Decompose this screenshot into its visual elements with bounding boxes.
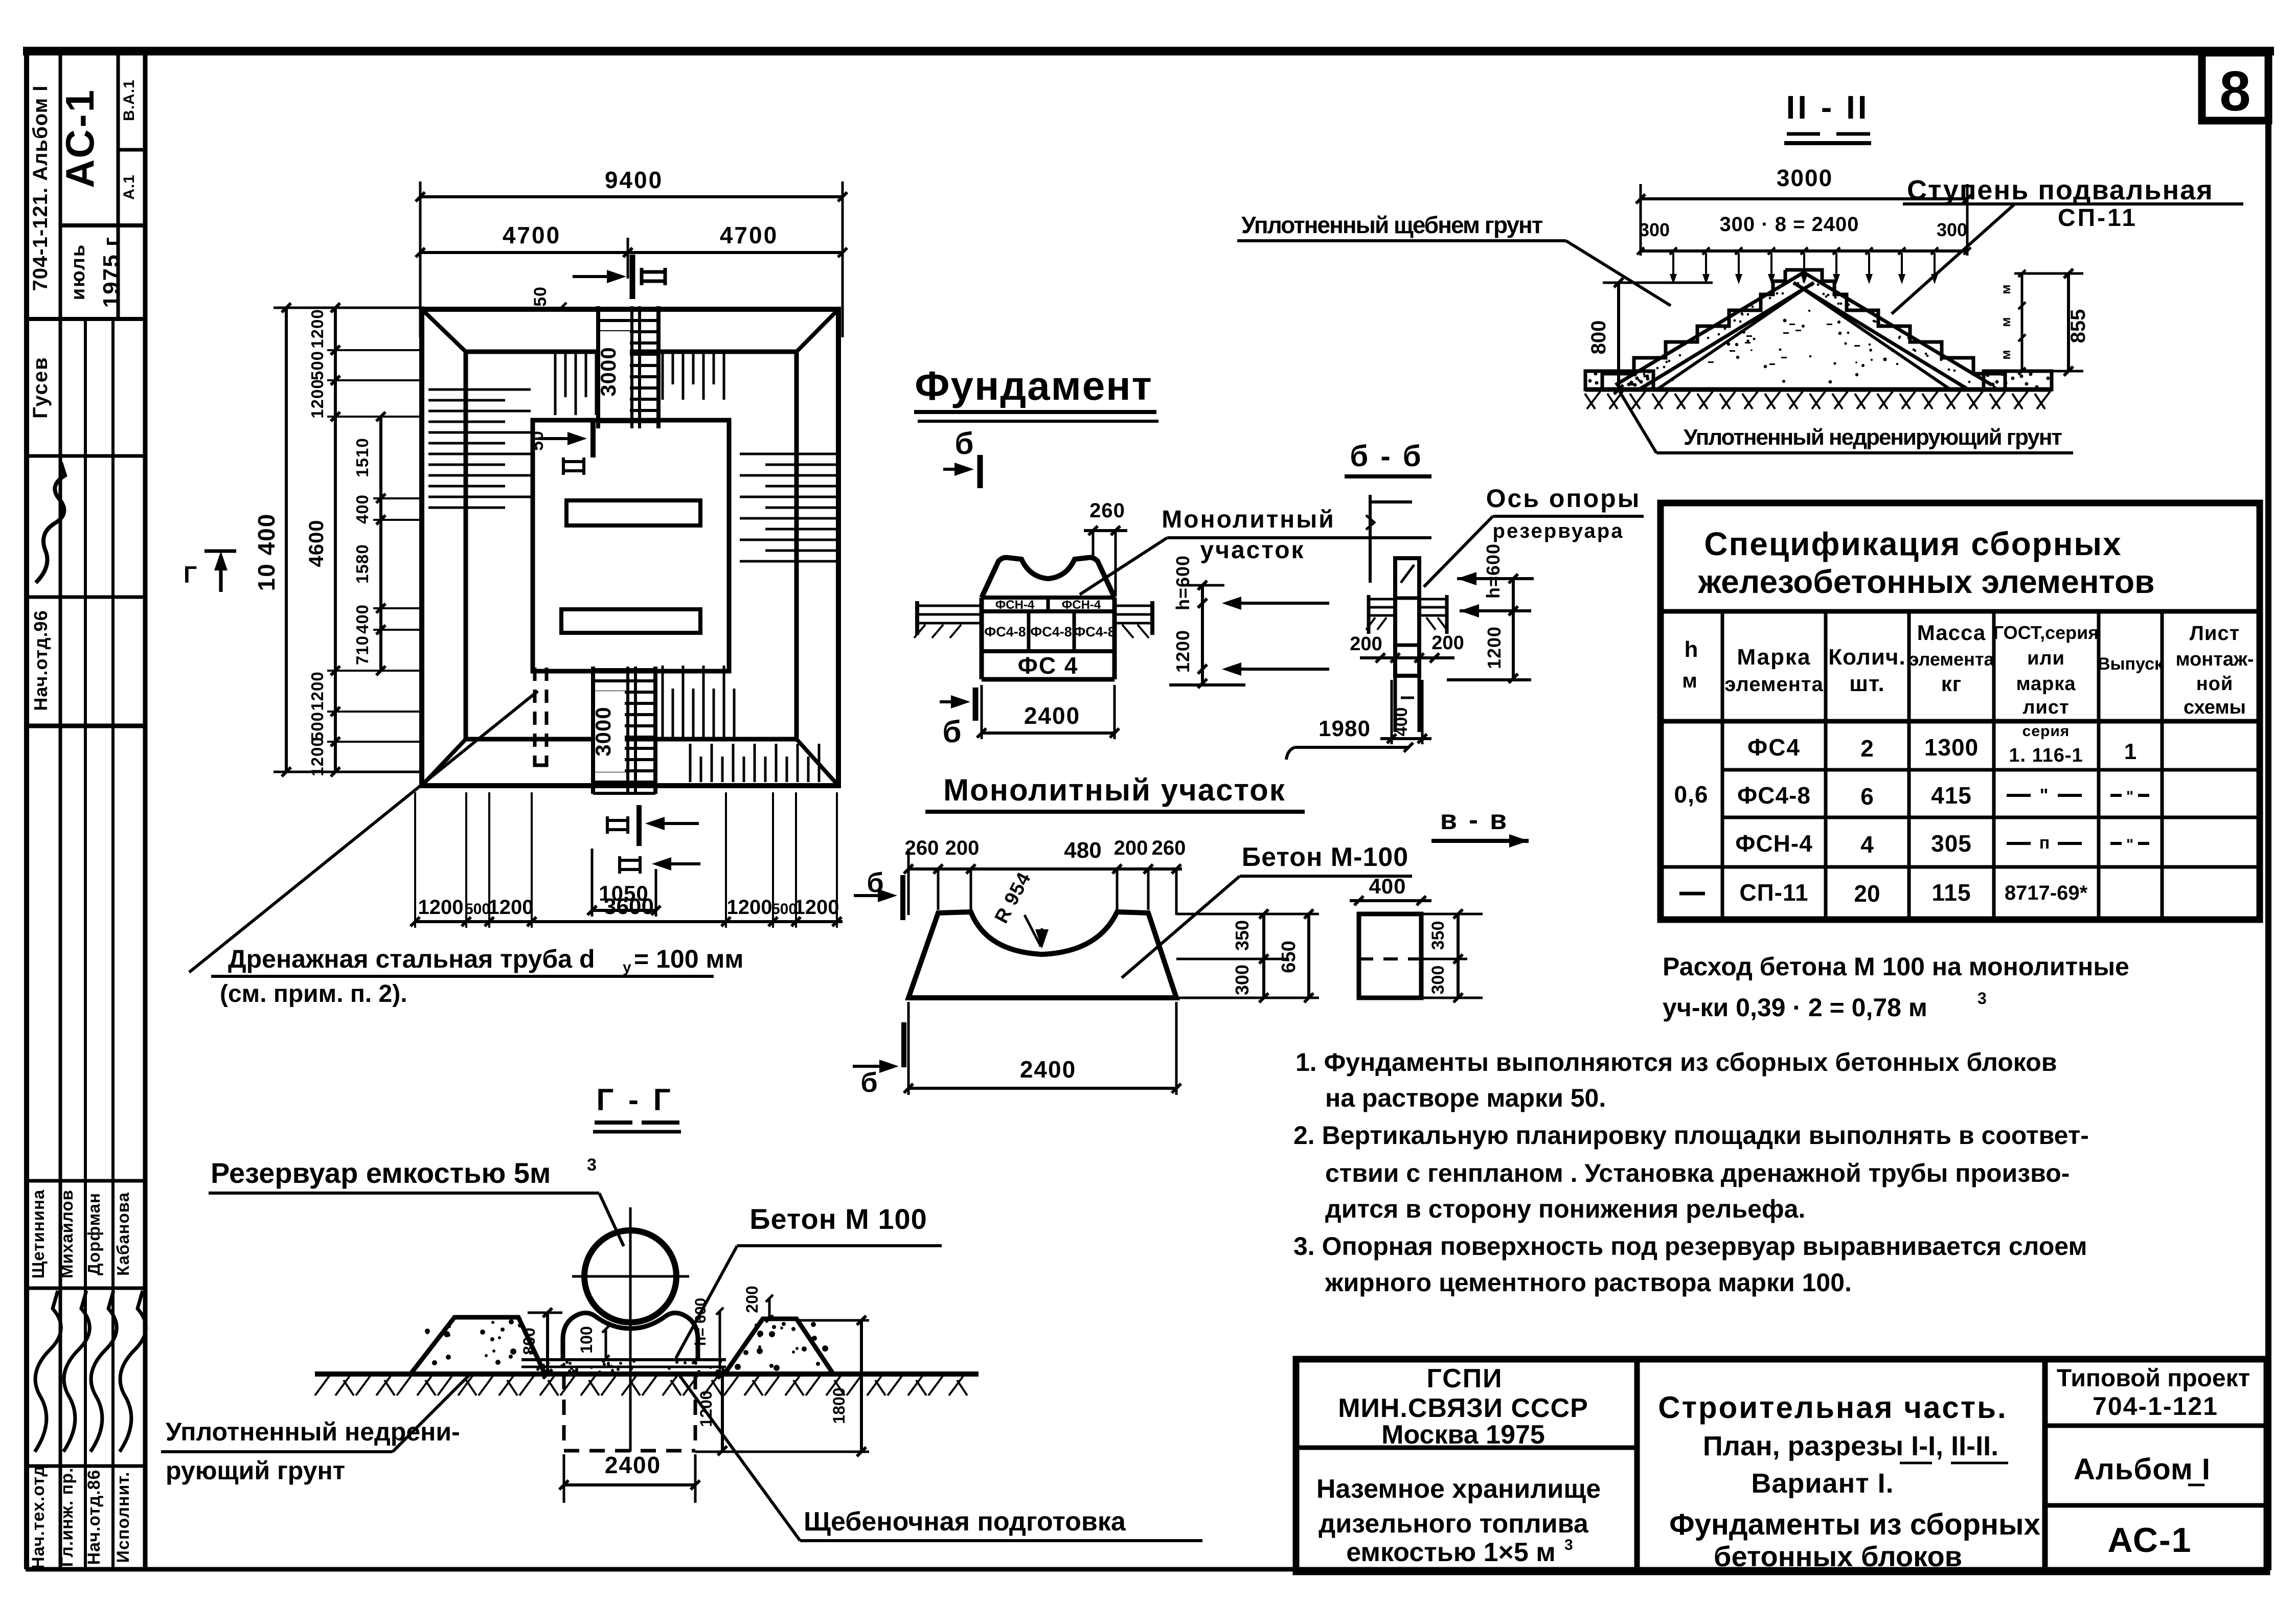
svg-text:1. 116-1: 1. 116-1 xyxy=(2009,745,2083,766)
svg-text:1: 1 xyxy=(2124,739,2136,764)
svg-text:Нач.отд.96: Нач.отд.96 xyxy=(30,610,51,711)
svg-text:400: 400 xyxy=(1369,874,1406,898)
svg-text:1200: 1200 xyxy=(1172,630,1193,673)
spec table header bottom xyxy=(1661,719,2260,724)
svg-text:ФС4-8: ФС4-8 xyxy=(1030,624,1072,639)
svg-text:м: м xyxy=(1998,350,2013,359)
plan: lower foundation slot xyxy=(561,609,700,633)
svg-text:Выпуск: Выпуск xyxy=(2098,654,2164,674)
b-b: support column rectangle xyxy=(1395,558,1419,676)
svg-text:дизельного топлива: дизельного топлива xyxy=(1319,1509,1589,1539)
svg-text:ФСН-4: ФСН-4 xyxy=(1735,830,1813,857)
title block right dividers xyxy=(2045,1424,2267,1428)
svg-text:ФС4-8: ФС4-8 xyxy=(1074,624,1116,639)
base strip left end xyxy=(1585,371,1653,390)
spec table header divider xyxy=(1661,609,2260,614)
stamp signature squiggle col4 xyxy=(120,1291,146,1452)
svg-text:855: 855 xyxy=(2067,309,2089,344)
svg-text:3: 3 xyxy=(1977,989,1987,1008)
dim 800 left II-II xyxy=(1603,282,1713,284)
plan: top stair label 3000 xyxy=(600,331,630,412)
plan: central foundation rectangle xyxy=(533,420,729,671)
gravel + concrete base layers xyxy=(521,1358,726,1361)
fundament level reference arrows xyxy=(1222,597,1241,610)
stamp strip vertical line x221 lower section xyxy=(111,319,115,1569)
svg-text:м: м xyxy=(1998,284,2013,294)
svg-text:115: 115 xyxy=(1931,879,1971,906)
dimension 9400 top xyxy=(420,195,843,198)
svg-text:б: б xyxy=(942,715,961,749)
plan: upper foundation slot xyxy=(566,500,700,525)
stamp signature squiggle col3 xyxy=(90,1291,117,1452)
plan: hatching bottom band (vertical strokes) xyxy=(663,666,819,782)
svg-text:Кабанова: Кабанова xyxy=(113,1192,132,1276)
svg-text:2400: 2400 xyxy=(1020,1056,1076,1083)
mound inner fill triangle xyxy=(1658,289,1949,388)
svg-text:Спецификация сборных: Спецификация сборных xyxy=(1704,525,2122,562)
mound stepped outline right xyxy=(1785,270,2005,390)
base line II-II xyxy=(1585,387,2052,392)
svg-text:h=600: h=600 xyxy=(1172,555,1193,610)
stamp strip divider y293 xyxy=(118,148,145,152)
svg-text:8717-69*: 8717-69* xyxy=(2005,882,2088,904)
svg-text:в - в: в - в xyxy=(1440,805,1509,835)
dim 855 overall right II-II xyxy=(2067,273,2070,371)
svg-text:300: 300 xyxy=(1428,966,1448,995)
svg-text:400: 400 xyxy=(353,604,372,634)
svg-text:260: 260 xyxy=(1089,499,1125,522)
plan: drain pipe dashed line left xyxy=(533,668,537,765)
svg-text:50: 50 xyxy=(531,286,550,307)
svg-text:План, разрезы I-I, II-II.: План, разрезы I-I, II-II. xyxy=(1703,1431,1998,1461)
stamp strip divider y2310 xyxy=(27,1179,145,1183)
svg-text:Дренажная стальная труба d: Дренажная стальная труба d xyxy=(228,945,595,973)
svg-text:Вариант I.: Вариант I. xyxy=(1751,1468,1894,1499)
stamp strip divider y892 xyxy=(27,454,145,458)
svg-text:3000: 3000 xyxy=(596,347,620,396)
svg-text:1510: 1510 xyxy=(353,438,372,477)
v-v right dims 350/300 xyxy=(1421,913,1483,916)
svg-text:Уплотненный недрени-: Уплотненный недрени- xyxy=(166,1417,460,1446)
svg-text:1200: 1200 xyxy=(1484,626,1505,669)
mound fill speckles xyxy=(1671,310,1898,384)
svg-text:кг: кг xyxy=(1941,672,1962,696)
b-b dimension 200+200 xyxy=(1360,656,1454,659)
svg-text:200: 200 xyxy=(743,1286,761,1313)
svg-text:260: 260 xyxy=(1152,837,1186,859)
svg-text:1200: 1200 xyxy=(794,896,839,919)
svg-text:участок: участок xyxy=(1200,537,1305,564)
svg-text:260: 260 xyxy=(905,837,939,859)
svg-text:3000: 3000 xyxy=(1777,165,1833,191)
svg-text:6: 6 xyxy=(1860,783,1874,810)
svg-text:3. Опорная поверхность под: 3. Опорная поверхность под резервуар выр… xyxy=(1293,1232,2087,1261)
svg-text:В.А.1: В.А.1 xyxy=(121,79,138,121)
dim 800 left of pedestal xyxy=(528,1312,562,1314)
svg-text:8: 8 xyxy=(2219,60,2250,123)
svg-text:ФС4-8: ФС4-8 xyxy=(1737,782,1811,809)
svg-text:Монолитный: Монолитный xyxy=(1162,506,1335,533)
sheet top border xyxy=(23,47,2274,56)
left dimension chain 1200/500/1200/4600/1200/500/1200 xyxy=(334,308,337,772)
svg-text:Щетинина: Щетинина xyxy=(29,1189,48,1279)
plan: hatching right band (horizontal strokes) xyxy=(740,454,837,561)
v-v block dashed mid line xyxy=(1359,957,1421,960)
fundament block: FSN-4 row xyxy=(982,596,1115,600)
svg-text:элемента: элемента xyxy=(1909,649,1995,670)
svg-text:20: 20 xyxy=(1854,880,1880,907)
svg-text:лист: лист xyxy=(2022,697,2069,718)
svg-text:Ось опоры: Ось опоры xyxy=(1486,484,1641,513)
svg-text:элемента: элемента xyxy=(1724,673,1824,696)
svg-text:1580: 1580 xyxy=(353,544,372,583)
svg-text:1300: 1300 xyxy=(1924,734,1979,761)
right small step dims II-II xyxy=(2014,272,2083,275)
pedestal under tank xyxy=(563,1313,698,1359)
tank circle xyxy=(584,1230,676,1322)
stamp strip divider y441 xyxy=(60,223,145,227)
sheet bottom border xyxy=(26,1567,2268,1572)
fundament right dims h=600 and 1200 xyxy=(1201,585,1204,683)
svg-text:ФС4: ФС4 xyxy=(1747,734,1801,761)
dimension 10400 overall left xyxy=(285,308,288,772)
svg-text:ГОСТ,серия: ГОСТ,серия xyxy=(1993,622,2099,643)
svg-text:СП-11: СП-11 xyxy=(1739,879,1808,906)
svg-text:Лист: Лист xyxy=(2190,622,2240,645)
dimension 3000 (II-II) xyxy=(1641,197,1967,200)
svg-text:Гл.инж. пр.: Гл.инж. пр. xyxy=(57,1468,77,1567)
b-b level reference arrows xyxy=(1457,572,1476,585)
plan: bottom stair label 3000 xyxy=(595,691,625,772)
svg-text:ГСПИ: ГСПИ xyxy=(1426,1364,1503,1393)
plan: chamfer diagonal top-right xyxy=(797,309,838,352)
svg-text:400: 400 xyxy=(1392,707,1411,737)
svg-text:Уплотненный недренирующий гр: Уплотненный недренирующий грунт xyxy=(1684,425,2062,450)
left berm xyxy=(411,1317,545,1374)
svg-text:на растворе марки 50.: на растворе марки 50. xyxy=(1325,1084,1606,1112)
ground hatch below base II-II xyxy=(1585,392,2050,409)
svg-text:2400: 2400 xyxy=(605,1452,661,1478)
fundament: ground lines right xyxy=(1115,605,1152,607)
svg-text:400: 400 xyxy=(353,494,372,524)
v-v block rectangle xyxy=(1359,914,1421,998)
saddle bottom dimension 2400 xyxy=(908,1087,1176,1090)
plan: hatching left band (horizontal strokes) xyxy=(428,390,531,508)
svg-text:шт.: шт. xyxy=(1849,671,1885,696)
svg-text:м: м xyxy=(1998,317,2013,327)
svg-text:h= 600: h= 600 xyxy=(692,1298,709,1346)
right berm xyxy=(724,1319,833,1374)
spec table row line 2 xyxy=(1722,816,2260,819)
svg-text:ФСН-4: ФСН-4 xyxy=(995,598,1035,612)
svg-text:Уплотненный щебнем грунт: Уплотненный щебнем грунт xyxy=(1241,212,1543,238)
b-b right dims h=600 and 1200 xyxy=(1512,579,1515,678)
stamp signature squiggle 1 xyxy=(36,463,65,583)
svg-text:Нач.отд.86: Нач.отд.86 xyxy=(84,1470,104,1565)
svg-text:(см. прим. п. 2).: (см. прим. п. 2). xyxy=(220,980,407,1008)
svg-text:3: 3 xyxy=(587,1155,597,1175)
sheet left border xyxy=(24,51,29,1569)
stamp strip vertical line x231 top section xyxy=(117,51,120,319)
title block divider 2 xyxy=(2042,1359,2048,1572)
svg-text:650: 650 xyxy=(1278,941,1300,973)
svg-text:4: 4 xyxy=(1860,831,1874,858)
spec table column lines xyxy=(1721,611,1724,920)
svg-text:800: 800 xyxy=(520,1328,538,1355)
b-b: ground lines left xyxy=(1369,598,1395,601)
stamp strip vertical line x284 (right edge of strip) xyxy=(143,51,148,1569)
svg-text:монтаж-: монтаж- xyxy=(2175,649,2254,670)
mound stepped outline left xyxy=(1602,270,1785,390)
svg-text:Бетон М-100: Бетон М-100 xyxy=(1242,842,1408,872)
plan: chamfer diagonal bottom-left xyxy=(422,739,466,786)
svg-text:б: б xyxy=(954,426,973,461)
svg-text:h: h xyxy=(1685,637,1698,662)
svg-text:емкостью 1×5 м: емкостью 1×5 м xyxy=(1346,1538,1555,1567)
svg-text:50: 50 xyxy=(528,430,547,451)
dimension 4700+4700 xyxy=(420,251,843,254)
svg-text:704-1-121: 704-1-121 xyxy=(2093,1392,2218,1421)
svg-text:1200: 1200 xyxy=(727,896,772,919)
mound inclined band right xyxy=(1804,272,1992,385)
dimension 260 on fundament top xyxy=(1084,529,1127,532)
svg-text:200: 200 xyxy=(945,837,980,859)
svg-text:ФС 4: ФС 4 xyxy=(1018,652,1079,679)
plan: hatching top band (vertical strokes) xyxy=(555,354,724,415)
svg-text:200: 200 xyxy=(1114,837,1148,859)
stamp strip vertical line x167 lower section xyxy=(84,319,87,1569)
svg-text:бетонных блоков: бетонных блоков xyxy=(1714,1540,1962,1572)
svg-text:А.1: А.1 xyxy=(121,174,138,200)
svg-text:Колич.: Колич. xyxy=(1828,645,1905,670)
berm speckles xyxy=(425,1319,828,1371)
svg-text:ствии с генпланом . Установ: ствии с генпланом . Установка дренажной … xyxy=(1325,1159,2070,1187)
svg-text:200: 200 xyxy=(1431,632,1464,654)
svg-text:= 100 мм: = 100 мм xyxy=(634,945,743,973)
saddle block outline xyxy=(908,912,1176,998)
sheet right border xyxy=(2265,51,2271,1570)
svg-text:б - б: б - б xyxy=(1350,440,1423,473)
svg-text:2. Вертикальную планировку п: 2. Вертикальную планировку площадки выпо… xyxy=(1293,1121,2089,1150)
b-b dimension 400 xyxy=(1380,737,1431,740)
svg-text:710: 710 xyxy=(353,635,372,665)
plan: outer rectangle of mound xyxy=(422,309,838,786)
svg-text:200: 200 xyxy=(1350,633,1382,655)
svg-text:3000: 3000 xyxy=(591,706,615,756)
svg-text:железобетонных элементов: железобетонных элементов xyxy=(1698,563,2155,600)
svg-text:АС-1: АС-1 xyxy=(57,88,102,188)
svg-text:СП-11: СП-11 xyxy=(2058,204,2138,232)
svg-text:500: 500 xyxy=(308,351,327,380)
svg-text:у: у xyxy=(623,959,631,976)
svg-text:305: 305 xyxy=(1931,830,1972,857)
svg-text:Монолитный участок: Монолитный участок xyxy=(943,773,1286,807)
svg-text:п: п xyxy=(2039,833,2050,853)
dimension 300x8=2400 chain xyxy=(1641,249,1967,253)
svg-text:9400: 9400 xyxy=(605,167,663,193)
svg-text:0,6: 0,6 xyxy=(1674,781,1709,808)
svg-text:415: 415 xyxy=(1931,782,1972,809)
stamp strip divider y1168 xyxy=(27,596,145,599)
svg-text:м: м xyxy=(1682,670,1697,692)
stamp strip divider y2520 xyxy=(27,1287,145,1290)
title block divider 1 xyxy=(1634,1359,1640,1572)
svg-text:Ступень подвальная: Ступень подвальная xyxy=(1907,175,2214,205)
svg-text:Фундаменты из сборных: Фундаменты из сборных xyxy=(1669,1508,2040,1541)
svg-text:жирного цементного раствора: жирного цементного раствора марки 100. xyxy=(1325,1268,1852,1297)
spec table outer border xyxy=(1661,503,2260,920)
svg-text:1200: 1200 xyxy=(488,896,534,919)
svg-text:1050: 1050 xyxy=(599,881,648,905)
plan: bottom stair rungs xyxy=(593,668,655,671)
v-v dimension 400 xyxy=(1350,899,1431,902)
b-b: ground lines right xyxy=(1419,598,1447,601)
svg-text:ной: ной xyxy=(2196,673,2234,695)
svg-text:Москва 1975: Москва 1975 xyxy=(1381,1420,1545,1450)
svg-text:Г - Г: Г - Г xyxy=(596,1083,673,1117)
svg-text:II - II: II - II xyxy=(1786,89,1870,126)
dim 2400 under G-G xyxy=(564,1483,695,1486)
svg-text:или: или xyxy=(2027,648,2065,669)
svg-text:Бетон М 100: Бетон М 100 xyxy=(749,1203,927,1235)
svg-text:уч-ки 0,39 · 2 = 0,78 м: уч-ки 0,39 · 2 = 0,78 м xyxy=(1663,993,1927,1022)
svg-text:рующий грунт: рующий грунт xyxy=(166,1456,345,1485)
svg-text:Дорфман: Дорфман xyxy=(84,1193,103,1275)
svg-text:Масса: Масса xyxy=(1917,621,1986,645)
section mark II at inner rect top xyxy=(567,432,587,445)
fundament: ground lines left xyxy=(917,605,982,607)
mound inclined band left (step stringer) xyxy=(1616,272,1804,385)
svg-text:300: 300 xyxy=(1639,219,1670,240)
svg-text:Г: Г xyxy=(184,561,197,588)
svg-text:Расход бетона М 100 на монол: Расход бетона М 100 на монолитные xyxy=(1663,952,2129,981)
svg-text:h=600: h=600 xyxy=(1483,543,1504,599)
svg-text:300: 300 xyxy=(1937,219,1967,240)
svg-text:Гусев: Гусев xyxy=(29,356,52,418)
svg-text:704-1-121. Альбом I: 704-1-121. Альбом I xyxy=(29,85,52,291)
svg-text:серия: серия xyxy=(2022,723,2070,740)
section mark G left of plan xyxy=(204,550,236,553)
svg-text:1200: 1200 xyxy=(308,379,327,418)
title block outer xyxy=(1296,1359,2267,1572)
svg-text:ФС4-8: ФС4-8 xyxy=(984,624,1026,639)
plan: chamfer diagonal top-left xyxy=(422,309,466,352)
svg-text:500: 500 xyxy=(465,901,490,918)
svg-text:МИН.СВЯЗИ СССР: МИН.СВЯЗИ СССР xyxy=(1338,1393,1588,1423)
svg-text:": " xyxy=(2039,785,2048,806)
svg-text:Марка: Марка xyxy=(1737,645,1811,670)
svg-text:Резервуар емкостью 5м: Резервуар емкостью 5м xyxy=(211,1157,551,1189)
fundament block: FS4 row xyxy=(982,677,1115,682)
svg-text:июль: июль xyxy=(67,244,89,300)
mound band speckles xyxy=(1638,280,1971,383)
svg-text:100: 100 xyxy=(577,1326,596,1353)
dimension 2400 under fundament xyxy=(982,731,1115,735)
base strip right end xyxy=(1984,371,2052,390)
stamp strip vertical line x118 xyxy=(59,51,62,1569)
svg-text:4700: 4700 xyxy=(503,222,561,248)
svg-text:1975 г: 1975 г xyxy=(99,236,124,308)
svg-text:резервуара: резервуара xyxy=(1493,520,1624,542)
ground hatch marks G-G xyxy=(315,1376,967,1395)
stamp strip divider y624 xyxy=(27,317,145,321)
svg-text:1200: 1200 xyxy=(308,737,327,776)
svg-text:схемы: схемы xyxy=(2184,697,2246,718)
svg-text:Михайлов: Михайлов xyxy=(57,1189,76,1278)
svg-text:3: 3 xyxy=(1564,1537,1573,1553)
svg-text:300 · 8 = 2400: 300 · 8 = 2400 xyxy=(1719,213,1859,236)
plan: leader line to drain pipe note xyxy=(189,691,538,972)
svg-text:Исполнит.: Исполнит. xyxy=(113,1472,133,1563)
svg-text:ФСН-4: ФСН-4 xyxy=(1062,598,1101,612)
section mark II top (cut symbol with arrow) xyxy=(607,270,626,283)
page number box xyxy=(2202,53,2268,121)
svg-text:Щебеночная подготовка: Щебеночная подготовка xyxy=(804,1507,1126,1537)
svg-text:480: 480 xyxy=(1064,838,1101,863)
spec data h column dash xyxy=(1679,892,1705,896)
b-b: top-left bracket with break xyxy=(1369,495,1372,583)
plan: drain pipe dashed line right xyxy=(545,668,549,765)
stamp strip divider y2868 xyxy=(27,1464,145,1468)
b-b: column buried extension xyxy=(1394,676,1397,732)
saddle top dimension chain 260/200/480/200/260 xyxy=(908,867,1182,871)
fundament block: FS4-8 row xyxy=(982,649,1115,653)
stamp signature squiggle col1 xyxy=(35,1291,61,1452)
svg-text:Строительная часть.: Строительная часть. xyxy=(1658,1390,2007,1425)
plan: top stair strip rails xyxy=(596,306,600,428)
stamp signature squiggle col2 xyxy=(63,1291,89,1452)
dimension 1050 xyxy=(592,909,656,912)
ground line G-G xyxy=(315,1371,979,1377)
bottom dimension chain 1200/500/1200/3600/1200/500/1200 xyxy=(415,920,843,923)
left dimension chain 1510/400/1580/400/710 xyxy=(379,417,382,671)
svg-text:марка: марка xyxy=(2016,673,2076,695)
svg-text:350: 350 xyxy=(1232,920,1253,951)
svg-text:800: 800 xyxy=(1587,321,1610,355)
plan: second rectangle (top of embankment) xyxy=(466,352,797,739)
svg-text:1200: 1200 xyxy=(308,671,327,711)
fundament block: saddle cap profile xyxy=(982,558,1115,598)
svg-text:б: б xyxy=(860,1067,877,1098)
svg-text:Наземное хранилище: Наземное хранилище xyxy=(1316,1474,1601,1504)
svg-text:1. Фундаменты выполняются из: 1. Фундаменты выполняются из сборных бет… xyxy=(1295,1048,2057,1077)
svg-text:": " xyxy=(2126,836,2133,853)
svg-text:1980: 1980 xyxy=(1319,716,1371,741)
spec table row line 1 xyxy=(1722,768,2260,772)
fundament: ground hatch marks xyxy=(914,625,1149,638)
tank axis crosshair xyxy=(629,1207,632,1452)
plan: drain pipe end cap xyxy=(535,757,547,765)
svg-text:Альбом I: Альбом I xyxy=(2074,1453,2211,1486)
svg-text:АС-1: АС-1 xyxy=(2108,1521,2192,1560)
svg-text:1200: 1200 xyxy=(418,896,464,919)
svg-text:2: 2 xyxy=(1860,735,1874,762)
svg-text:Типовой проект: Типовой проект xyxy=(2057,1365,2250,1392)
section mark II below bottom stair xyxy=(652,857,671,871)
svg-text:2400: 2400 xyxy=(1024,702,1080,729)
svg-text:350: 350 xyxy=(1428,921,1448,950)
dim 1800 overall right xyxy=(798,1319,869,1322)
spec table row line 3 xyxy=(1661,865,2260,869)
saddle right dims 350/300 and 650 xyxy=(1176,913,1319,916)
section mark II bottom (near stair) xyxy=(645,817,665,830)
svg-text:": " xyxy=(2126,788,2133,805)
svg-text:1200: 1200 xyxy=(308,309,327,348)
svg-text:4600: 4600 xyxy=(305,520,328,567)
svg-text:дится в сторону понижения: дится в сторону понижения рельефа. xyxy=(1325,1195,1805,1223)
svg-text:4700: 4700 xyxy=(720,222,778,248)
dimension 1980 to b-b axis xyxy=(1294,746,1408,749)
